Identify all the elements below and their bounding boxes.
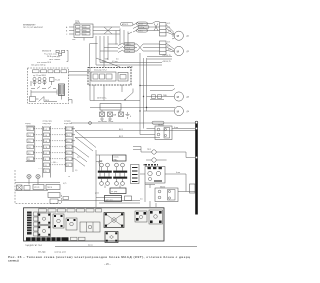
svg-text:0,75 м: 0,75 м	[126, 47, 131, 49]
relay block RB2	[66, 218, 77, 230]
caption line 2	[8, 259, 19, 263]
svg-text:ВУ-1: ВУ-1	[119, 129, 123, 131]
svg-text:блок упр. БУ-2: блок упр. БУ-2	[94, 70, 107, 72]
svg-text:1,5: 1,5	[75, 170, 77, 172]
wire bus y100	[90, 100, 140, 102]
svg-text:— ВЧ —: — ВЧ —	[51, 162, 58, 164]
terminal column X1	[26, 126, 35, 162]
svg-text:0,75 м: 0,75 м	[140, 27, 145, 29]
terminal header K1	[25, 123, 31, 125]
lamp HL2	[36, 174, 40, 182]
terminal links X1-X2	[34, 129, 44, 159]
rectifier VD	[59, 84, 65, 96]
terminal column X2	[43, 126, 51, 178]
triple box	[80, 222, 100, 232]
connector XT1	[66, 21, 93, 41]
svg-text:1·2: 1·2	[28, 129, 31, 131]
contactor KM1 winding bars	[98, 171, 112, 173]
fuse box	[30, 97, 36, 102]
busbar tap box	[190, 184, 196, 193]
cable marker row3	[137, 29, 148, 32]
label box start	[46, 185, 60, 190]
wire bus y107	[90, 107, 175, 109]
svg-text:ввод: ввод	[83, 30, 87, 32]
svg-text:0,75: 0,75	[63, 183, 66, 185]
svg-text:7·8: 7·8	[67, 147, 70, 149]
junction block box	[100, 104, 121, 111]
motor M3	[174, 92, 183, 101]
svg-text:СТОП: СТОП	[34, 187, 40, 189]
motor M1	[174, 31, 183, 40]
terminal stubs right	[72, 129, 75, 159]
text under panel	[25, 244, 93, 247]
svg-text:сигн. лампы: сигн. лампы	[49, 59, 61, 61]
svg-text:3·4: 3·4	[28, 135, 31, 137]
page number	[104, 263, 111, 266]
contactor lamps row	[100, 163, 125, 171]
label box low 1	[110, 188, 126, 194]
svg-text:РМ2: РМ2	[115, 161, 119, 163]
svg-text:5·6: 5·6	[45, 141, 48, 143]
wire 28V a	[147, 56, 172, 58]
dashed panel border	[15, 170, 62, 204]
wires from T3 to right	[68, 72, 90, 104]
svg-text:осв. багажн. 2,5 мм: осв. багажн. 2,5 мм	[98, 121, 114, 123]
terminal block TB1	[38, 213, 51, 225]
transformer windings	[33, 77, 36, 80]
svg-text:сх. упр.: сх. упр.	[111, 191, 118, 193]
lamps lower row	[100, 179, 125, 186]
svg-text:щит осв.: щит осв.	[106, 199, 114, 201]
cable marker row6	[124, 49, 135, 52]
label box stop	[33, 185, 44, 190]
svg-text:0,75: 0,75	[167, 27, 170, 29]
cable marker row5	[124, 46, 135, 49]
svg-text:303-4(Д): 303-4(Д)	[38, 252, 46, 254]
svg-text:сп: сп	[68, 176, 70, 178]
svg-text:24В 2А: 24В 2А	[127, 66, 133, 69]
svg-text:2,5: 2,5	[77, 157, 79, 159]
relay box P2	[155, 187, 178, 202]
mounting panel	[24, 208, 165, 241]
label box top of lamp cluster	[113, 155, 127, 161]
svg-text:к щиту: к щиту	[25, 123, 31, 125]
diagonal feed	[96, 58, 120, 67]
svg-text:15: 15	[45, 171, 47, 173]
coil L1	[50, 78, 55, 82]
label box panel 1	[105, 196, 122, 202]
legend boxes	[56, 50, 59, 52]
svg-text:0,75: 0,75	[167, 42, 170, 44]
svg-text:0,75 м: 0,75 м	[126, 51, 131, 53]
cable marker row1	[137, 22, 148, 25]
component row before M3	[150, 89, 175, 100]
wire 3-phase C	[93, 33, 120, 35]
fan unit	[104, 213, 124, 228]
terminal links X2-X3	[50, 129, 67, 165]
wire risers to relays	[116, 29, 128, 46]
svg-text:ПР-2: ПР-2	[147, 149, 151, 151]
svg-text:санитар. узел: санитар. узел	[54, 252, 66, 254]
svg-text:380/220 В: 380/220 В	[42, 51, 52, 53]
relay K2 contacts	[100, 43, 137, 53]
transformer T2 terminals	[160, 41, 167, 55]
aux box 2	[50, 199, 58, 204]
motor M2	[174, 46, 183, 55]
contactor block CB2	[149, 210, 163, 224]
contactor KM2 winding bars	[113, 171, 127, 173]
relay block RB1	[53, 214, 64, 228]
terminal header K2	[43, 121, 53, 125]
left stack boxes	[34, 212, 39, 216]
relay K1 contacts	[128, 23, 152, 35]
net labels VCh	[38, 162, 58, 170]
note text top-left	[23, 23, 43, 29]
contactor block CB1	[135, 211, 147, 222]
cable marker row4	[124, 42, 135, 45]
label box panel 2	[125, 196, 132, 201]
svg-text:5·6: 5·6	[28, 141, 31, 143]
svg-text:КМ-50: КМ-50	[160, 187, 165, 189]
svg-text:24 В 50 Гц: 24 В 50 Гц	[97, 98, 107, 100]
terminal header K3	[64, 121, 72, 125]
svg-text:ТС-2 осв. каб.: ТС-2 осв. каб.	[44, 53, 57, 55]
svg-text:ТС-25: ТС-25	[55, 79, 60, 81]
wire with marker y123	[71, 122, 195, 124]
wire label tag	[63, 197, 69, 200]
wire 3-phase A	[93, 26, 120, 28]
svg-text:380 В: 380 В	[75, 23, 81, 25]
fuse strip	[145, 164, 158, 166]
breaker QF1 lens	[121, 22, 134, 26]
svg-text:сеть: сеть	[72, 39, 75, 41]
wire 28V b	[147, 58, 172, 60]
crossing	[104, 27, 112, 34]
svg-text:1·2: 1·2	[67, 129, 70, 131]
svg-text:3·4: 3·4	[45, 135, 48, 137]
junction box under panel	[105, 232, 118, 243]
wire 3-phase B	[93, 30, 120, 32]
svg-text:0,5: 0,5	[116, 59, 119, 61]
busbar joint	[195, 127, 197, 129]
switch	[39, 97, 45, 102]
svg-text:0,75: 0,75	[168, 49, 171, 51]
legend bracket	[67, 50, 69, 61]
svg-text:ввод: ввод	[83, 34, 87, 36]
legend table	[42, 51, 61, 61]
svg-text:1·2: 1·2	[45, 129, 48, 131]
svg-text:11: 11	[28, 159, 30, 161]
wire bus y182	[15, 182, 60, 184]
terminal column X3	[65, 126, 73, 172]
header row	[33, 70, 40, 73]
motor M4	[174, 106, 183, 115]
svg-text:КК2 25: КК2 25	[126, 44, 131, 46]
relay cluster P1	[145, 167, 165, 184]
wire risers mid	[96, 36, 108, 67]
svg-text:13: 13	[67, 165, 69, 167]
svg-text:7·8: 7·8	[45, 147, 48, 149]
svg-text:5·6: 5·6	[67, 141, 70, 143]
button SB2	[24, 186, 30, 191]
wire 24V a	[100, 62, 162, 64]
svg-text:ТЦА ДВРУ АТ. ТВ-2: ТЦА ДВРУ АТ. ТВ-2	[25, 244, 42, 247]
fuse FU1	[152, 150, 156, 154]
svg-text:11: 11	[45, 159, 47, 161]
svg-text:ПС-ТС, БТ НБЛ ВОЛ: ПС-ТС, БТ НБЛ ВОЛ	[23, 27, 43, 29]
svg-text:9·1: 9·1	[45, 153, 48, 155]
svg-text:0,75: 0,75	[168, 31, 171, 33]
aux box 1	[48, 193, 60, 198]
svg-text:0,75: 0,75	[167, 46, 170, 48]
battery symbol	[126, 112, 130, 119]
svg-text:≈28 В 0,75: ≈28 В 0,75	[162, 55, 171, 57]
svg-text:0,5 мм: 0,5 мм	[112, 61, 118, 63]
svg-text:3·4: 3·4	[67, 135, 70, 137]
panel top row boxes	[39, 209, 47, 212]
lamp HL1	[27, 174, 31, 182]
cable marker row2	[138, 25, 149, 28]
contacts row	[31, 87, 56, 89]
svg-text:жгута №2: жгута №2	[64, 122, 72, 125]
svg-text:≈28 В 0,75: ≈28 В 0,75	[162, 61, 171, 63]
svg-text:7·8: 7·8	[28, 147, 31, 149]
button SB1	[17, 185, 23, 190]
svg-text:реле: реле	[95, 193, 99, 195]
svg-text:13: 13	[45, 165, 47, 167]
control unit A1 dashed box	[88, 66, 133, 85]
svg-text:№2 щиток №3 пр.: №2 щиток №3 пр.	[31, 64, 46, 67]
svg-text:КК1 25: КК1 25	[138, 23, 143, 25]
svg-text:11: 11	[67, 159, 69, 161]
ground cluster center	[100, 112, 133, 121]
svg-text:9·1: 9·1	[67, 153, 70, 155]
wires below A1	[94, 85, 122, 101]
svg-text:0,75: 0,75	[167, 23, 170, 25]
busbar heavy	[195, 124, 198, 215]
svg-text:– 26 –: – 26 –	[104, 263, 111, 266]
terminal block TB2	[38, 226, 51, 237]
svg-text:2,5: 2,5	[140, 199, 143, 201]
routing diagonals	[75, 131, 96, 158]
panel bottom strip dark	[26, 237, 85, 241]
wire bus VU1	[75, 130, 196, 132]
svg-text:— — сп. — —: — — сп. — —	[38, 168, 50, 170]
wire bus VU2	[75, 137, 160, 139]
rule line	[55, 246, 197, 248]
power block T3 dashed box	[28, 62, 69, 104]
caption line 1	[8, 255, 190, 259]
svg-text:Рис. 26 – Типовая схема (монта: Рис. 26 – Типовая схема (монтаж) электро…	[8, 255, 190, 259]
DIN rail striped column	[27, 212, 32, 235]
terminal numbers	[28, 129, 70, 173]
svg-text:0,75 м: 0,75 м	[138, 30, 143, 32]
cluster vertical wires	[96, 150, 120, 207]
fuse FU2	[152, 158, 156, 162]
svg-text:ВУ-2: ВУ-2	[119, 136, 123, 138]
svg-text:схемы): схемы)	[8, 259, 19, 263]
caption small labels	[38, 252, 66, 254]
wire 24V b	[96, 64, 162, 66]
KM box right 1	[155, 125, 172, 140]
ground symbols	[100, 117, 104, 122]
enclosure border	[90, 44, 98, 67]
transformer T1 terminals	[160, 23, 167, 37]
pin ladder	[131, 165, 140, 184]
svg-text:24 В цепи упр.: 24 В цепи упр.	[47, 56, 61, 58]
crossing 2	[137, 44, 143, 51]
wires above panel	[58, 198, 140, 204]
svg-text:ввод: ввод	[83, 27, 87, 29]
svg-text:КМ-600: КМ-600	[158, 125, 164, 127]
wire y85	[140, 85, 174, 87]
svg-text:соед. жгут: соед. жгут	[43, 123, 52, 125]
svg-text:9·1: 9·1	[28, 153, 31, 155]
svg-text:пр. 2,5 мм 380 В: пр. 2,5 мм 380 В	[33, 75, 47, 77]
switch SA1	[125, 89, 133, 100]
